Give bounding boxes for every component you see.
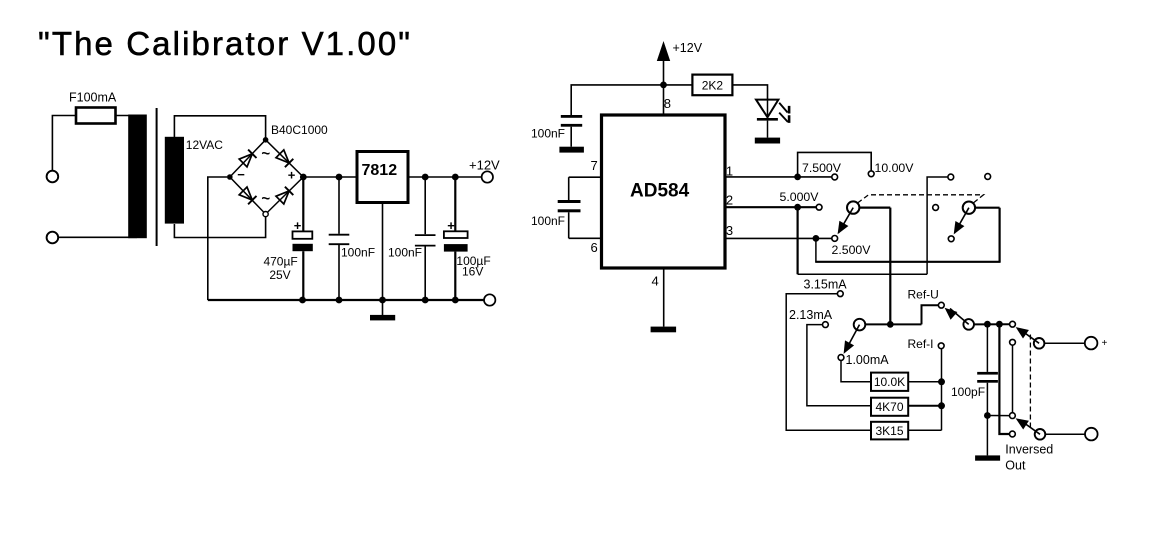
- node bottom rail at C2: [422, 297, 429, 304]
- terminal output minus: [1085, 428, 1098, 441]
- node bridge plus right: [301, 174, 307, 180]
- wire 3.15mA to R4: [786, 294, 871, 431]
- capacitor C5 100nF pins 7-6: [568, 177, 570, 200]
- contact 7.500V: [832, 174, 838, 180]
- contact 2.500V: [832, 236, 838, 242]
- node 7.5V: [794, 174, 801, 181]
- switch S4b wiper arm: [1020, 420, 1040, 434]
- svg-text:+12V: +12V: [469, 158, 500, 173]
- svg-text:25V: 25V: [269, 268, 290, 282]
- svg-text:Ref-U: Ref-U: [908, 287, 939, 301]
- node bottom rail at 470uF: [299, 297, 306, 304]
- node bridge plus on rail: [300, 174, 307, 181]
- node bottom rail at C1: [336, 297, 343, 304]
- wire to 7.5V contact: [798, 176, 832, 178]
- wire S3 output: [974, 323, 1010, 325]
- svg-text:3.15mA: 3.15mA: [804, 278, 848, 292]
- svg-text:1: 1: [726, 163, 733, 178]
- contact 1.00mA: [838, 355, 844, 361]
- svg-text:+: +: [288, 167, 296, 182]
- svg-text:"The Calibrator V1.00": "The Calibrator V1.00": [38, 25, 412, 62]
- capacitor C4 100nF at supply: [561, 115, 582, 118]
- svg-text:Inversed: Inversed: [1005, 442, 1053, 456]
- svg-text:3K15: 3K15: [875, 424, 903, 438]
- svg-text:2K2: 2K2: [702, 79, 724, 93]
- svg-text:Out: Out: [1005, 458, 1026, 472]
- capacitor C1 100nF: [338, 177, 340, 234]
- terminal J1 (AC input top): [47, 171, 59, 183]
- contact S4a main: [1010, 321, 1016, 327]
- node S1a output to current bus: [887, 321, 894, 328]
- ground symbol at C4: [559, 147, 584, 153]
- svg-text:7.500V: 7.500V: [802, 161, 842, 175]
- resistor R3 4K70: [871, 398, 908, 416]
- svg-text:2.500V: 2.500V: [832, 243, 872, 257]
- switch S4a wiper arm: [1020, 330, 1039, 344]
- switch S1b output thick wire: [975, 207, 1000, 209]
- svg-text:100nF: 100nF: [388, 246, 422, 260]
- svg-text:3: 3: [726, 223, 733, 238]
- ground symbol at LED: [755, 138, 780, 144]
- wire bridge plus to 7812 input (top rail): [303, 176, 357, 178]
- svg-text:2: 2: [726, 192, 733, 207]
- node R3 bus: [938, 402, 945, 409]
- switch gang dashed link S4a-S4b: [1029, 335, 1031, 428]
- svg-text:100pF: 100pF: [951, 385, 985, 399]
- node 5V: [794, 204, 801, 211]
- node bridge minus left: [227, 174, 233, 180]
- switch S3 rotor: [963, 319, 974, 330]
- contact S1b floating top-right: [985, 174, 991, 180]
- node supply at pin8: [660, 82, 667, 89]
- svg-text:AD584: AD584: [630, 180, 690, 201]
- svg-text:~: ~: [261, 191, 270, 208]
- svg-text:Ref-I: Ref-I: [908, 337, 934, 351]
- wire fuse to transformer primary: [116, 115, 138, 117]
- contact S1b 5V feed: [948, 174, 954, 180]
- bridge diode D1 top-left: [239, 154, 252, 167]
- wire J2 to transformer primary: [59, 236, 137, 238]
- wire resistor bus vertical: [941, 349, 943, 431]
- terminal +12V output: [482, 171, 493, 182]
- wire 1.00mA to R2: [841, 360, 871, 382]
- LED light arrows: [779, 103, 788, 122]
- wire 5V net down and to S1b: [796, 207, 798, 274]
- terminal J2 (AC input bottom): [47, 232, 59, 244]
- pin 8 wire: [663, 85, 665, 115]
- transformer TR1 primary winding: [128, 115, 147, 239]
- node inverted bus: [984, 412, 991, 419]
- ground symbol under 7812: [370, 315, 395, 321]
- contact S1b selected: [948, 236, 954, 242]
- wire 7.5V node to 10V contact: [798, 152, 872, 177]
- wire secondary top to bridge AC1: [174, 116, 265, 139]
- node bottom rail at 7812 ground: [379, 297, 386, 304]
- resistor R1 2K2: [692, 75, 732, 96]
- svg-text:1.00mA: 1.00mA: [846, 353, 890, 367]
- wire 2K2 to LED: [732, 85, 767, 100]
- svg-text:5.000V: 5.000V: [780, 190, 820, 204]
- wire link S4a-S4b contacts: [1012, 345, 1014, 413]
- wire 7812 output to +12V: [408, 176, 482, 178]
- wire supply node to C4: [571, 85, 663, 115]
- svg-text:−: −: [237, 167, 245, 182]
- pin 6 wire: [569, 237, 602, 239]
- wire secondary bottom to bridge AC2: [174, 216, 265, 237]
- svg-text:4: 4: [652, 274, 659, 289]
- ground symbol at pin 4: [651, 327, 677, 333]
- contact Ref-I: [938, 343, 944, 349]
- terminal output plus: [1085, 337, 1098, 350]
- svg-text:4K70: 4K70: [875, 400, 903, 414]
- node bottom rail at C3: [452, 297, 459, 304]
- power symbol +12V arrow: [657, 41, 670, 61]
- contact 2.13mA: [823, 322, 829, 328]
- wire S4b to minus terminal: [1045, 433, 1086, 435]
- regulator U1 7812 box: [357, 152, 408, 203]
- switch S2 wiper arm: [846, 325, 860, 351]
- svg-text:2.13mA: 2.13mA: [789, 308, 833, 322]
- wire J1 to fuse: [52, 116, 76, 171]
- wire main out to lower contact thick: [999, 324, 1009, 434]
- bridge rectifier B1 diamond: [230, 140, 303, 214]
- node bridge AC top: [263, 137, 269, 143]
- bridge diode D3 bottom-left: [239, 187, 252, 200]
- svg-text:100nF: 100nF: [341, 246, 375, 260]
- capacitor C6 100pF: [986, 324, 988, 372]
- svg-text:+12V: +12V: [673, 41, 703, 55]
- svg-text:470µF: 470µF: [263, 254, 297, 268]
- switch S1b rotor: [963, 202, 975, 214]
- pin 1 wire 7.5V: [726, 176, 798, 178]
- node main out at inverter feed: [996, 321, 1003, 328]
- node main out at 100pF: [984, 321, 991, 328]
- transformer TR1 secondary winding: [165, 137, 184, 224]
- wire current bus: [865, 323, 921, 325]
- switch S1a output thick wire: [859, 207, 890, 209]
- capacitor C0 470uF electrolytic: [302, 177, 304, 231]
- transformer TR1 core: [156, 108, 158, 246]
- capacitor C2 100nF: [424, 177, 426, 234]
- wire 2.13mA to R3: [807, 325, 871, 406]
- svg-text:B40C1000: B40C1000: [271, 123, 328, 137]
- LED D5: [756, 100, 778, 118]
- svg-text:100nF: 100nF: [531, 214, 565, 228]
- svg-text:+: +: [1102, 338, 1108, 349]
- contact S1b floating left: [933, 205, 939, 211]
- svg-text:7812: 7812: [362, 162, 398, 179]
- switch gang dashed link S1a-S1b: [858, 195, 984, 203]
- switch S1b wiper arm: [955, 208, 969, 233]
- wire 2.5V node down to S1b return: [815, 238, 817, 261]
- resistor R2 10.0K: [871, 373, 908, 391]
- wire R3 right: [908, 405, 941, 407]
- fuse F1 F100mA: [76, 115, 116, 117]
- node top rail at C3 100uF: [452, 174, 459, 181]
- switch S1a wiper arm: [839, 208, 854, 233]
- contact Ref-U: [938, 302, 944, 308]
- pin 2 wire 5V: [726, 206, 798, 208]
- node 2.5V on pin3: [813, 235, 820, 242]
- switch S4b rotor: [1035, 429, 1046, 440]
- svg-text:12VAC: 12VAC: [186, 138, 223, 152]
- wire 7812 ground: [382, 202, 384, 315]
- node bridge AC bottom: [263, 212, 268, 217]
- contact 3.15mA: [837, 291, 843, 297]
- wire bottom rail: [208, 299, 484, 301]
- svg-text:6: 6: [591, 240, 598, 255]
- contact S4b main: [1010, 431, 1016, 437]
- contact S4a inverted: [1010, 339, 1016, 345]
- switch S2 rotor: [854, 319, 866, 331]
- switch S1a rotor: [847, 201, 859, 213]
- contact 10.00V: [868, 171, 874, 177]
- svg-text:100nF: 100nF: [531, 127, 565, 141]
- wire supply node to R1 2K2: [664, 84, 693, 86]
- svg-text:F100mA: F100mA: [69, 91, 117, 105]
- capacitor C3 100uF electrolytic: [454, 177, 456, 231]
- svg-text:~: ~: [261, 146, 270, 163]
- wire R2 right: [908, 381, 941, 383]
- svg-text:10.00V: 10.00V: [875, 161, 915, 175]
- IC U2 AD584 box: [602, 115, 726, 268]
- wire S4a to plus terminal: [1044, 342, 1086, 344]
- wire bridge minus to bottom rail: [208, 177, 227, 300]
- contact S4b inverted: [1010, 413, 1016, 419]
- bridge diode D2 top-right: [276, 150, 289, 163]
- wire inverted bus to contact: [987, 415, 1009, 417]
- svg-text:16V: 16V: [462, 265, 483, 279]
- switch S4a rotor: [1034, 338, 1045, 349]
- pin 4 wire: [663, 268, 665, 327]
- svg-text:10.0K: 10.0K: [874, 375, 905, 389]
- svg-text:7: 7: [591, 158, 598, 173]
- terminal 0V output: [484, 294, 495, 305]
- wire to 2.5V contact: [816, 237, 832, 239]
- node R2 bus: [938, 378, 945, 385]
- switch S3 wiper arm: [950, 309, 969, 325]
- node top rail at C2 100nF: [422, 174, 429, 181]
- wire to 5V contact: [798, 206, 817, 208]
- bridge diode D4 bottom-right: [276, 191, 289, 204]
- contact 5.000V: [816, 204, 822, 210]
- resistor R4 3K15: [871, 422, 908, 440]
- wire R4 right: [908, 429, 941, 431]
- pin 3 wire 2.5V: [726, 237, 817, 239]
- ground symbol at 100pF: [975, 455, 1000, 460]
- node top rail at C1 100nF: [336, 174, 343, 181]
- svg-text:8: 8: [664, 96, 671, 111]
- pin 7 wire: [569, 176, 602, 178]
